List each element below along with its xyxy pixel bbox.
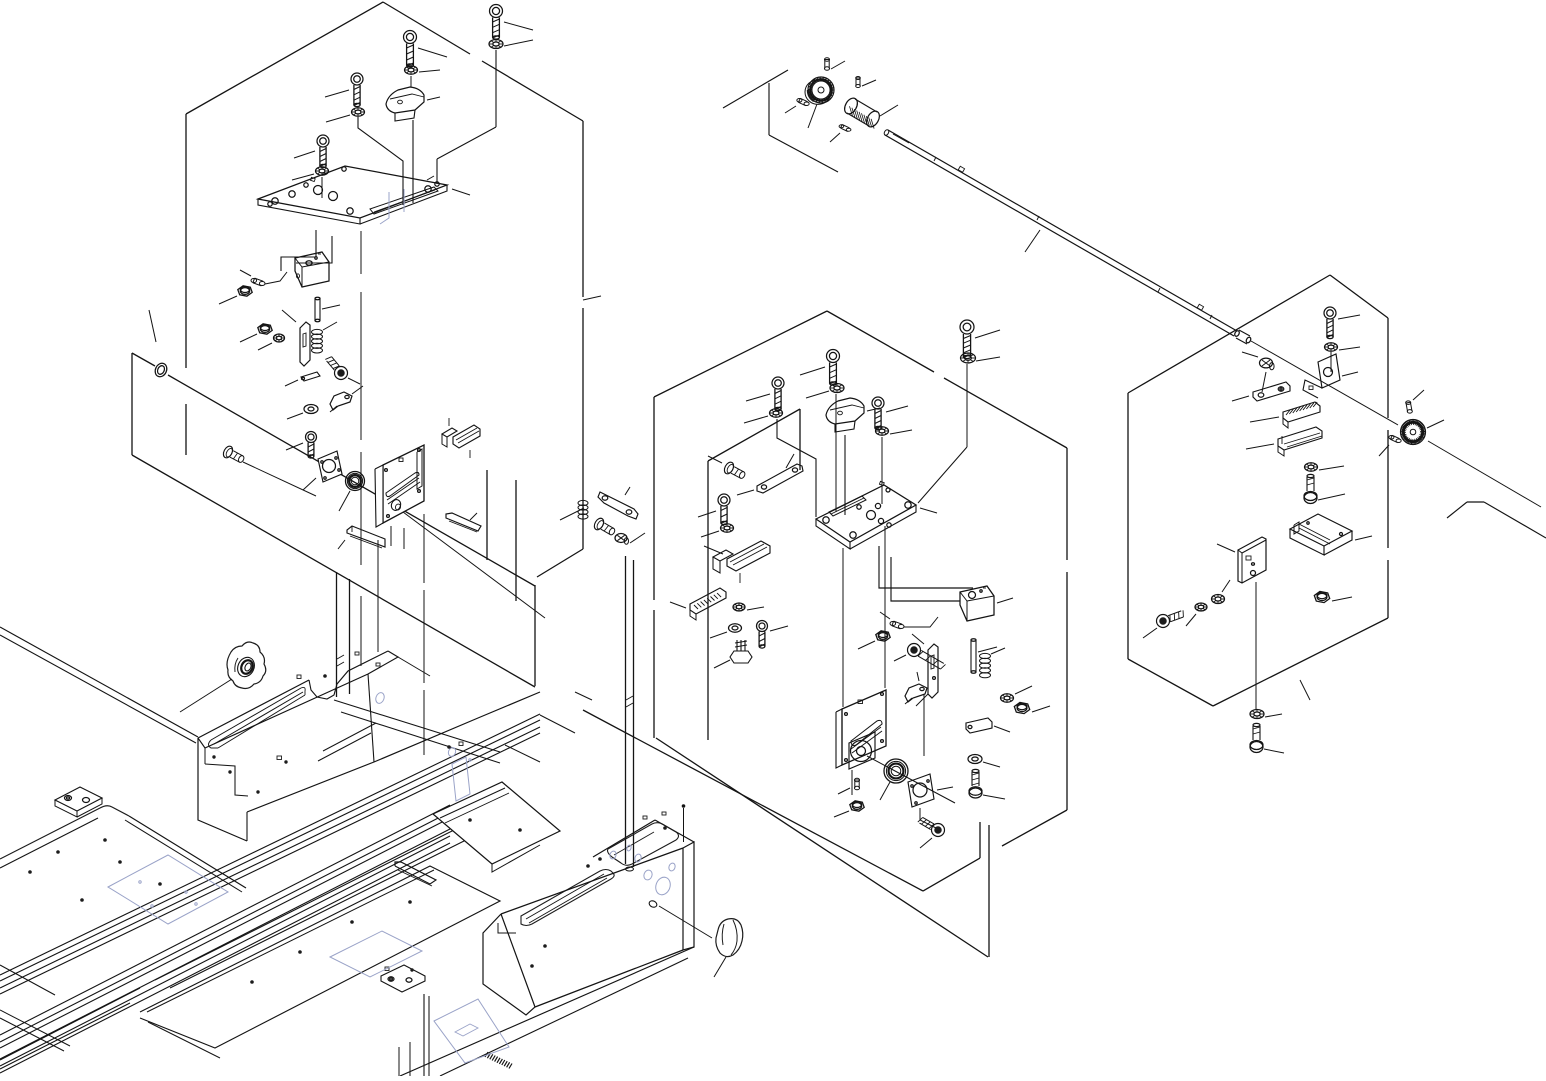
middle panel bottom left — [656, 738, 988, 957]
alignment vertical x378 — [377, 540, 379, 652]
middle inner vertical — [708, 409, 800, 740]
middle panel right edge — [827, 311, 1067, 810]
link plate B7 — [282, 310, 310, 366]
screw R11 — [1143, 610, 1183, 638]
bracket R9 big — [1290, 514, 1372, 555]
washer R7 — [1305, 463, 1345, 471]
line R down — [1255, 582, 1257, 710]
right box front face — [501, 842, 694, 1007]
main plate M28 — [822, 690, 886, 795]
setscrew B3 — [240, 270, 265, 286]
rail block B18 — [338, 526, 385, 549]
spring M21 — [980, 648, 1006, 678]
washer A2 — [489, 40, 533, 49]
wedge block A5 — [386, 87, 440, 121]
strip bottom edge — [132, 455, 535, 687]
left panel right edge — [583, 121, 601, 549]
break zigzag right — [1447, 502, 1546, 538]
lower left lines — [0, 965, 260, 1076]
shaft — [883, 129, 1237, 336]
left panel outline apex-left edge — [186, 2, 383, 455]
wire plate-to-block — [281, 230, 332, 271]
washer A6 — [405, 66, 441, 74]
pulley G2 — [1401, 420, 1445, 445]
table T3 — [140, 866, 500, 1048]
left panel bottom step — [535, 549, 583, 686]
table T1 — [0, 806, 246, 902]
washer M26 — [968, 755, 1000, 768]
washer M13 — [710, 624, 742, 638]
nut M33 — [834, 801, 864, 817]
leader spring — [323, 322, 337, 330]
washer plate M30 — [908, 774, 953, 807]
bar R4 — [1232, 382, 1290, 401]
break zigzag left — [723, 70, 838, 172]
axis line — [1251, 341, 1541, 507]
pan screw B17 — [222, 445, 316, 496]
knob hole leader — [659, 906, 712, 938]
bar B10 — [285, 372, 320, 386]
screw M1 — [800, 350, 840, 386]
left panel outline apex-right edge — [383, 2, 583, 121]
washer R14 — [1250, 710, 1282, 719]
screw A4 — [294, 135, 329, 168]
table T1 phantom — [108, 855, 228, 924]
plate P1 leader lines — [344, 136, 361, 274]
washer A4 — [292, 167, 329, 180]
link M20 — [912, 634, 938, 706]
conduit wire — [879, 546, 973, 601]
shaft leader — [1025, 230, 1040, 252]
washer M5 — [961, 353, 1001, 363]
deck blue circle — [297, 652, 386, 705]
alignment vertical x361 — [360, 232, 362, 666]
valve block B1 — [295, 252, 329, 287]
washer M23 — [1001, 686, 1033, 702]
screw R8 — [1304, 474, 1345, 503]
setscrew G1b — [785, 98, 809, 113]
washer plate B16 — [303, 451, 342, 490]
rail block M10 — [704, 541, 770, 583]
washer A4 line — [321, 177, 323, 198]
valve block M16 — [960, 586, 1013, 621]
nut M17 — [858, 631, 890, 649]
flathead R3 — [1242, 352, 1274, 370]
setscrew G2a — [1406, 390, 1424, 413]
setscrew C1a — [856, 77, 876, 88]
line R3 — [1262, 372, 1266, 392]
right panel outline — [1128, 275, 1388, 706]
link bar M25 — [950, 718, 1010, 733]
hexbolt M15 — [714, 640, 752, 668]
middle panel left edge — [654, 311, 827, 738]
right panel leader — [1300, 680, 1310, 700]
spring B8 — [312, 329, 323, 353]
bar M7 — [737, 454, 803, 495]
washer M4 — [876, 427, 913, 435]
nut R16 — [1314, 591, 1352, 602]
middle strip line — [583, 710, 980, 891]
bridge deck — [334, 657, 500, 763]
strip left edge — [131, 353, 133, 455]
lever M34 — [905, 672, 927, 704]
wedge alignment — [411, 76, 413, 203]
socket screw M22 — [894, 644, 946, 670]
washer B11 — [287, 405, 318, 420]
knob right — [714, 919, 743, 977]
setscrew M32 — [838, 778, 860, 794]
screw M27 — [969, 769, 1005, 799]
left inner step vertical 2 — [515, 480, 517, 601]
bracket R10 — [1217, 537, 1266, 583]
screw M4 — [872, 397, 908, 430]
flathead B21 — [615, 533, 645, 544]
right box top edges — [593, 820, 694, 857]
screw M14 — [757, 621, 789, 649]
right box front holes — [531, 812, 676, 967]
rail block pair upper — [442, 418, 480, 458]
carriage left face — [198, 738, 247, 841]
right box deck slot2 — [521, 870, 614, 926]
pin M19 — [971, 639, 997, 673]
right box leader vertical — [682, 805, 685, 842]
blue contour right of carriage — [447, 742, 471, 801]
beam L — [0, 805, 450, 1073]
leader to B20 — [547, 508, 584, 536]
coupler C1 — [842, 96, 898, 129]
plate M6 leaders — [836, 394, 885, 707]
washer M3 alignment — [777, 419, 816, 517]
rail block B19 — [446, 513, 481, 532]
gib R5 hatched — [1250, 402, 1320, 428]
table T3 right edge — [399, 994, 429, 1076]
middle post — [626, 556, 634, 871]
small pad T1 — [55, 787, 102, 817]
lever B13 — [330, 386, 363, 412]
rear rail edge — [0, 627, 198, 743]
bottom-left bracket — [381, 965, 425, 992]
wedge M2 alignment — [844, 435, 846, 515]
washer A3 — [326, 108, 365, 122]
gib M11 hatched — [670, 588, 726, 620]
nut M24 — [1014, 702, 1050, 713]
line M5 down — [918, 364, 967, 503]
line from washer A2 down — [437, 50, 496, 184]
screw A3 — [325, 73, 363, 107]
washer R13 — [1212, 580, 1231, 604]
E-ring on strip — [149, 310, 169, 379]
setscrew C1b — [830, 125, 851, 143]
plate M6 — [816, 481, 937, 549]
left inner step vertical — [486, 470, 488, 560]
beam under box lines — [400, 947, 694, 1076]
hatched rail end — [485, 1052, 512, 1069]
pin B4 — [315, 297, 340, 321]
bracket front of box — [433, 782, 560, 872]
wedge M2 — [826, 398, 880, 432]
washer M12 — [733, 603, 764, 611]
screw M9 — [698, 494, 730, 525]
washer M3 — [744, 409, 783, 423]
screw A1 — [404, 31, 448, 68]
setscrew G1a — [824, 58, 845, 71]
alignment vertical x424 — [423, 514, 425, 755]
ramp diagonals — [318, 723, 376, 761]
spring B22s — [578, 500, 588, 519]
screw M3 — [746, 377, 784, 411]
socket screw M31 — [918, 817, 945, 848]
screw B12 — [286, 432, 317, 459]
gear G1 — [805, 77, 834, 128]
right box slot — [608, 823, 679, 866]
plate P1 — [258, 166, 470, 224]
washer M1 — [806, 384, 844, 399]
washer A3 alignment — [358, 117, 403, 205]
link bar B20 — [598, 487, 638, 519]
washer M9 — [701, 524, 734, 537]
phantom blue lower — [434, 911, 682, 1063]
bracket R2 — [1303, 354, 1358, 398]
bearing M29 — [880, 759, 908, 800]
wire M30 — [920, 808, 938, 829]
socket screw B9 — [325, 357, 360, 384]
cross bridge pieces — [505, 678, 593, 762]
beam L front lines — [0, 827, 470, 1069]
setscrew M18 — [880, 612, 904, 629]
beam U — [0, 714, 540, 994]
carriage front dots — [213, 756, 287, 793]
wire B3-block — [265, 272, 287, 284]
bearing B15 — [339, 472, 365, 512]
washer R1w — [1325, 343, 1361, 351]
washer R12 — [1186, 603, 1207, 626]
pan screw M8 — [708, 456, 746, 479]
nut B5 — [240, 324, 272, 342]
middle panel bottom right step — [989, 810, 1067, 957]
left post — [337, 572, 350, 697]
carriage slot — [209, 687, 306, 748]
screw A2 top-right — [490, 5, 534, 40]
wire M18 — [904, 617, 938, 627]
axis leader left — [399, 509, 545, 618]
setscrew G2b — [1379, 435, 1401, 456]
screw R1 — [1324, 307, 1360, 339]
carriage front face — [205, 674, 540, 841]
pan screw B22 — [592, 517, 615, 536]
block R6 — [1246, 427, 1322, 456]
washer B6 — [258, 334, 285, 350]
nut B2 — [219, 286, 252, 304]
table T3 rail piece — [395, 862, 436, 886]
axis leader M — [867, 756, 955, 803]
strip top edge — [132, 353, 535, 586]
screw M5 big — [960, 320, 1000, 359]
carriage deck outline — [198, 651, 398, 748]
shaft tip — [1234, 330, 1252, 344]
line R1 down — [1330, 352, 1332, 372]
main plate B14 — [375, 445, 424, 549]
screw R15 — [1250, 723, 1284, 753]
right box left face — [483, 914, 535, 1015]
lever M34 leader — [923, 694, 925, 756]
knob wheel — [180, 642, 266, 712]
